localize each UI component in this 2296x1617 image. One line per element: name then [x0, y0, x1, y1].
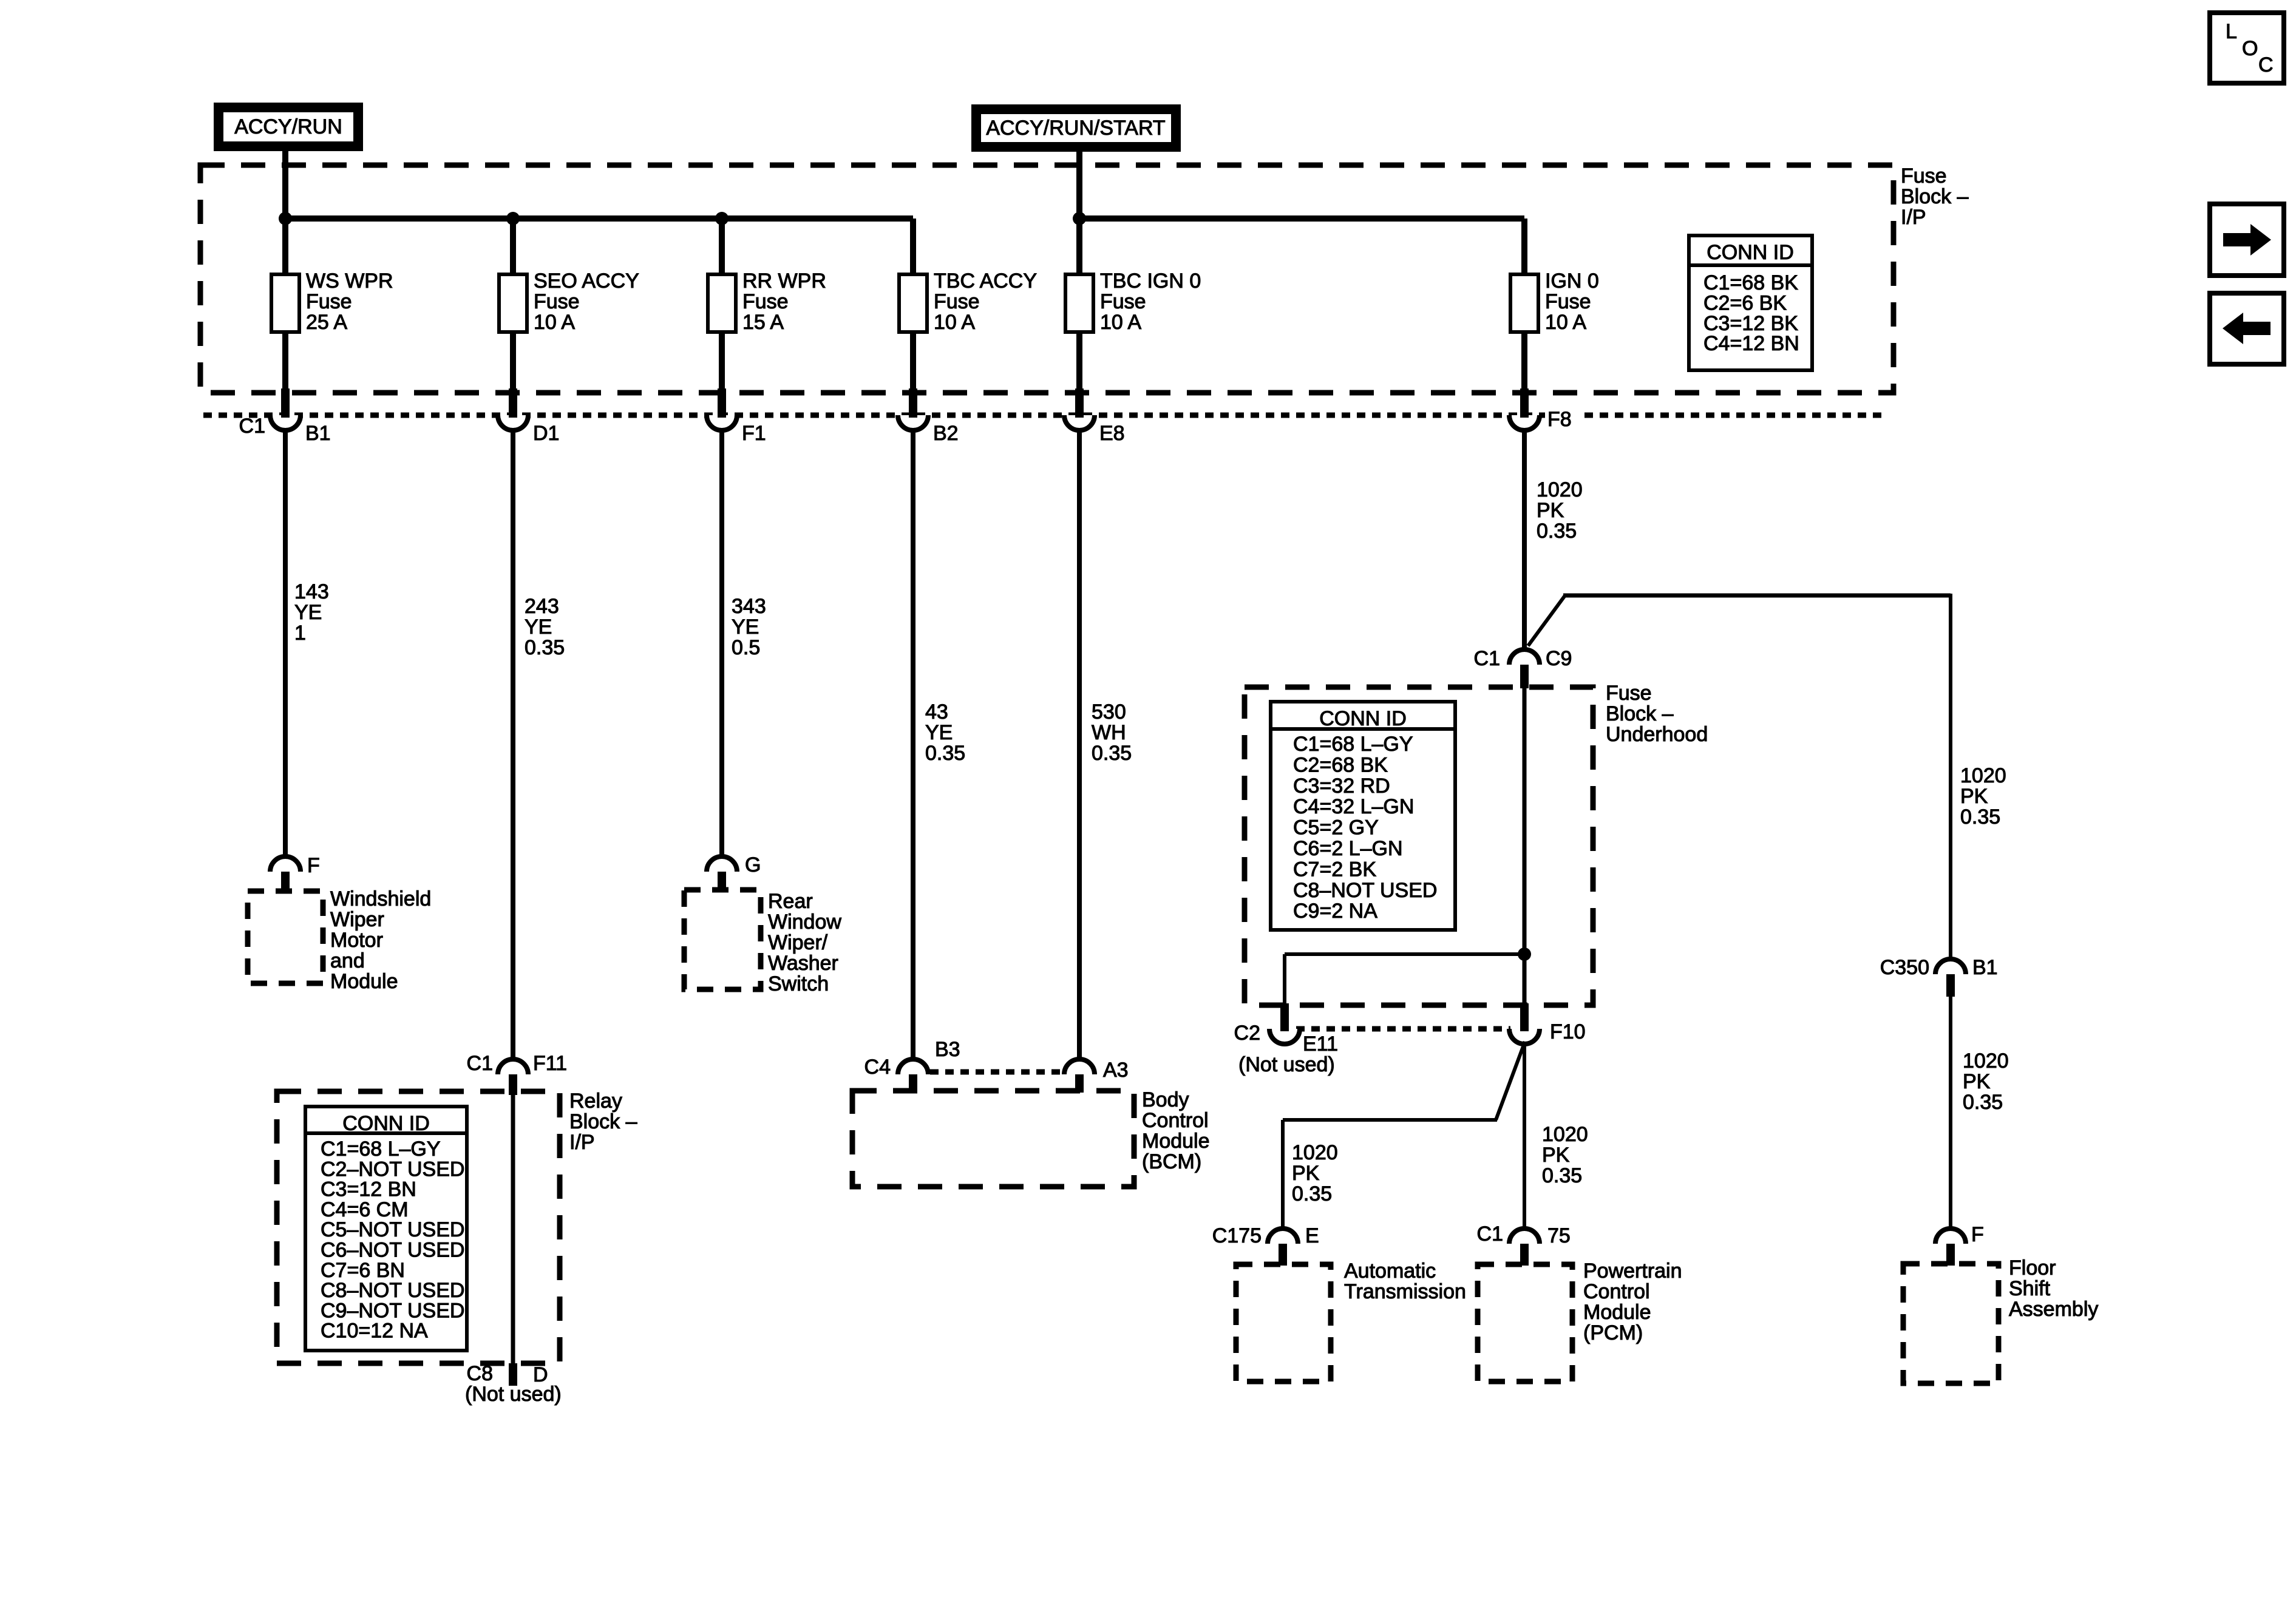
- fuse SEO ACCY 10 A: [499, 269, 639, 334]
- label 1020 PK 0.35 branch lower: [1963, 1049, 2009, 1114]
- wire fuse to connector x=2511: [1521, 332, 1527, 392]
- svg-text:Module: Module: [1583, 1301, 1651, 1324]
- wire ACCY/RUN feed: [282, 151, 288, 219]
- automatic transmission dashed outline: [1236, 1264, 1331, 1381]
- CONN ID table fuse block I/P: [1689, 236, 1812, 370]
- connector pin F1 fuse block I/P: [707, 388, 766, 445]
- svg-text:0.35: 0.35: [1292, 1182, 1332, 1205]
- wire F10 to PCM: [1523, 1043, 1526, 1230]
- connector C350 B1: [1880, 956, 1998, 997]
- label Fuse Block - I/P: [1901, 164, 1969, 229]
- wire bus to fuse x=470: [282, 219, 288, 274]
- svg-text:1020: 1020: [1292, 1141, 1338, 1164]
- svg-text:YE: YE: [732, 615, 759, 639]
- svg-text:WH: WH: [1092, 721, 1126, 744]
- svg-text:C5–NOT USED: C5–NOT USED: [321, 1218, 464, 1241]
- svg-text:Fuse: Fuse: [1606, 682, 1652, 705]
- svg-text:YE: YE: [525, 615, 552, 639]
- svg-text:C1: C1: [467, 1052, 493, 1075]
- connector C1 C9 underhood: [1474, 647, 1572, 688]
- svg-text:C8–NOT USED: C8–NOT USED: [321, 1279, 464, 1302]
- svg-text:Body: Body: [1142, 1088, 1189, 1111]
- fuse TBC ACCY 10 A: [899, 269, 1037, 334]
- svg-text:Fuse: Fuse: [742, 290, 789, 313]
- CONN ID table underhood: [1271, 702, 1455, 930]
- svg-text:Module: Module: [330, 970, 398, 993]
- node ACCY/RUN/START: [972, 105, 1180, 151]
- svg-text:143: 143: [294, 580, 329, 603]
- svg-text:Transmission: Transmission: [1344, 1280, 1466, 1303]
- node ACCY/RUN: [214, 103, 362, 151]
- svg-text:B3: B3: [935, 1038, 960, 1061]
- connector pin D1 fuse block I/P: [498, 388, 559, 445]
- svg-text:F: F: [1971, 1223, 1984, 1246]
- svg-text:(Not used): (Not used): [1238, 1053, 1335, 1076]
- svg-text:F: F: [307, 854, 320, 877]
- svg-text:1020: 1020: [1963, 1049, 2009, 1073]
- svg-text:0.35: 0.35: [1960, 805, 2000, 829]
- svg-text:C4=12 BN: C4=12 BN: [1703, 332, 1799, 355]
- svg-text:G: G: [745, 853, 761, 876]
- BCM connector dotted line: [930, 1070, 1063, 1075]
- svg-text:C1=68 L–GY: C1=68 L–GY: [321, 1137, 441, 1161]
- svg-text:C9=2 NA: C9=2 NA: [1293, 900, 1377, 923]
- svg-text:Shift: Shift: [2009, 1277, 2051, 1300]
- connector pin B2 fuse block I/P: [898, 388, 959, 445]
- svg-text:Block –: Block –: [1901, 185, 1969, 208]
- wire 530 WH circuit: [1079, 429, 1132, 1061]
- svg-text:ACCY/RUN/START: ACCY/RUN/START: [986, 117, 1165, 140]
- svg-text:YE: YE: [925, 721, 953, 744]
- svg-text:PK: PK: [1963, 1070, 1991, 1093]
- svg-text:Automatic: Automatic: [1344, 1259, 1436, 1283]
- connector C8 D not used: [465, 1362, 562, 1406]
- wire 243 YE circuit: [513, 429, 565, 1061]
- svg-text:1020: 1020: [1537, 478, 1583, 501]
- svg-text:Wiper: Wiper: [330, 908, 384, 931]
- wire ACCY/RUN/START feed: [1076, 151, 1082, 219]
- label Windshield Wiper Motor and Module: [330, 887, 431, 993]
- svg-text:C3=12 BN: C3=12 BN: [321, 1178, 416, 1201]
- svg-text:15 A: 15 A: [742, 311, 784, 334]
- svg-text:0.35: 0.35: [525, 636, 565, 659]
- svg-text:I/P: I/P: [1901, 206, 1926, 229]
- svg-text:RR WPR: RR WPR: [742, 269, 826, 293]
- svg-text:10 A: 10 A: [534, 311, 575, 334]
- svg-text:243: 243: [525, 595, 559, 618]
- wire fuse to connector x=470: [282, 332, 288, 392]
- svg-text:10 A: 10 A: [1545, 311, 1586, 334]
- svg-text:Block –: Block –: [1606, 702, 1674, 725]
- wire 1020 PK to floor shift: [1949, 997, 1952, 1230]
- wire bus ACCY/RUN/START: [1079, 215, 1524, 222]
- wire 143 YE circuit: [285, 429, 329, 858]
- wire bus to fuse x=1189: [719, 219, 725, 274]
- svg-text:C3=32 RD: C3=32 RD: [1293, 775, 1390, 798]
- wire 1020 PK circuit from F8: [1524, 429, 1583, 651]
- label Fuse Block - Underhood: [1606, 682, 1708, 746]
- svg-text:Module: Module: [1142, 1130, 1210, 1153]
- svg-text:A3: A3: [1103, 1059, 1129, 1082]
- svg-text:ACCY/RUN: ACCY/RUN: [234, 115, 342, 138]
- svg-text:CONN ID: CONN ID: [1707, 241, 1794, 264]
- svg-text:D1: D1: [533, 422, 559, 445]
- svg-text:E: E: [1305, 1224, 1319, 1247]
- svg-text:Relay: Relay: [569, 1090, 622, 1113]
- fuse IGN 0 10 A: [1510, 269, 1599, 334]
- svg-text:25 A: 25 A: [306, 311, 347, 334]
- floor shift assembly dashed outline: [1903, 1264, 1999, 1383]
- svg-text:TBC ACCY: TBC ACCY: [934, 269, 1037, 293]
- svg-text:E8: E8: [1099, 422, 1125, 445]
- svg-text:Underhood: Underhood: [1606, 723, 1708, 746]
- junction dot bus 1 at WS WPR: [279, 212, 292, 225]
- wire bus to fuse x=2511: [1521, 219, 1527, 274]
- svg-text:C7=2 BK: C7=2 BK: [1293, 858, 1376, 881]
- svg-text:C: C: [2258, 53, 2274, 76]
- svg-text:Control: Control: [1142, 1109, 1209, 1132]
- svg-text:1: 1: [294, 622, 306, 645]
- forward arrow box: [2210, 204, 2284, 276]
- svg-text:PK: PK: [1292, 1162, 1320, 1185]
- wire bus ACCY/RUN: [285, 215, 913, 222]
- wire fuse to connector x=845: [510, 332, 516, 392]
- fuse block underhood dashed outline: [1245, 687, 1593, 1005]
- svg-text:C8–NOT USED: C8–NOT USED: [1293, 879, 1437, 902]
- svg-text:(BCM): (BCM): [1142, 1150, 1201, 1173]
- windshield wiper motor dashed outline: [248, 891, 323, 983]
- svg-text:WS WPR: WS WPR: [306, 269, 393, 293]
- svg-text:CONN ID: CONN ID: [1319, 707, 1407, 730]
- svg-text:F10: F10: [1550, 1020, 1586, 1043]
- wire branch to C350: [1528, 594, 1951, 961]
- wire 43 YE circuit: [913, 429, 965, 1061]
- svg-text:Windshield: Windshield: [330, 887, 431, 910]
- junction dot bus 2 at TBC IGN 0: [1073, 212, 1086, 225]
- svg-text:Fuse: Fuse: [1901, 164, 1947, 188]
- svg-text:C2=6 BK: C2=6 BK: [1703, 291, 1787, 314]
- svg-text:C1: C1: [1474, 647, 1500, 670]
- svg-text:Fuse: Fuse: [934, 290, 980, 313]
- svg-text:0.35: 0.35: [1542, 1164, 1582, 1187]
- fuse RR WPR 15 A: [708, 269, 826, 334]
- svg-text:TBC IGN 0: TBC IGN 0: [1100, 269, 1201, 293]
- wire bus to fuse x=1778: [1076, 219, 1082, 274]
- svg-text:B1: B1: [1972, 956, 1998, 979]
- body control module dashed outline: [852, 1091, 1134, 1187]
- svg-text:C4: C4: [864, 1056, 891, 1079]
- svg-text:C175: C175: [1212, 1224, 1262, 1247]
- svg-text:C1: C1: [1477, 1222, 1503, 1246]
- svg-text:PK: PK: [1537, 499, 1564, 522]
- wire 343 YE circuit: [722, 429, 766, 858]
- connector A3 BCM: [1064, 1059, 1129, 1093]
- svg-text:C7=6 BN: C7=6 BN: [321, 1259, 405, 1282]
- svg-text:75: 75: [1547, 1224, 1571, 1247]
- wire relay block interior: [511, 1095, 515, 1363]
- svg-text:0.35: 0.35: [1092, 742, 1132, 765]
- svg-text:IGN 0: IGN 0: [1545, 269, 1599, 293]
- label 1020 PK 0.35 transmission: [1292, 1141, 1338, 1205]
- junction dot bus 1 at RR WPR: [715, 212, 729, 225]
- svg-text:343: 343: [732, 595, 766, 618]
- junction dot bus 1 at SEO ACCY: [506, 212, 520, 225]
- junction dot underhood: [1518, 947, 1531, 961]
- connector C2 E11 not used: [1234, 1003, 1338, 1076]
- svg-text:C6–NOT USED: C6–NOT USED: [321, 1239, 464, 1262]
- svg-text:Fuse: Fuse: [1545, 290, 1591, 313]
- svg-text:Control: Control: [1583, 1280, 1650, 1303]
- label Body Control Module (BCM): [1142, 1088, 1210, 1173]
- svg-text:0.35: 0.35: [925, 742, 965, 765]
- connector C4 B3 BCM: [864, 1038, 960, 1093]
- svg-text:C4=6 CM: C4=6 CM: [321, 1198, 409, 1221]
- wire F10 branch to C175: [1283, 1042, 1525, 1230]
- svg-text:C1=68 BK: C1=68 BK: [1703, 271, 1798, 294]
- svg-text:Assembly: Assembly: [2009, 1298, 2098, 1321]
- fuse WS WPR 25 A: [271, 269, 393, 334]
- svg-text:Wiper/: Wiper/: [768, 931, 828, 954]
- connector row dotted line C1 fuse block I/P: [203, 413, 1888, 418]
- relay block I/P dashed outline: [277, 1091, 560, 1363]
- label Automatic Transmission: [1344, 1259, 1466, 1303]
- svg-text:1020: 1020: [1960, 764, 2006, 787]
- svg-text:Fuse: Fuse: [306, 290, 352, 313]
- powertrain control module dashed outline: [1478, 1264, 1572, 1381]
- svg-text:Floor: Floor: [2009, 1256, 2056, 1280]
- label Floor Shift Assembly: [2009, 1256, 2098, 1321]
- svg-text:C2=68 BK: C2=68 BK: [1293, 753, 1388, 776]
- svg-text:C350: C350: [1880, 956, 1929, 979]
- svg-text:Washer: Washer: [768, 952, 838, 975]
- svg-text:(Not used): (Not used): [465, 1383, 562, 1406]
- svg-text:Rear: Rear: [768, 890, 813, 913]
- svg-text:and: and: [330, 949, 365, 972]
- svg-text:C10=12 NA: C10=12 NA: [321, 1320, 428, 1343]
- svg-text:YE: YE: [294, 601, 322, 624]
- svg-text:B2: B2: [933, 422, 959, 445]
- svg-text:F11: F11: [533, 1052, 567, 1075]
- CONN ID table relay block: [305, 1107, 467, 1351]
- svg-text:C2: C2: [1234, 1022, 1260, 1045]
- svg-text:C1=68 L–GY: C1=68 L–GY: [1293, 733, 1413, 756]
- svg-text:C3=12 BK: C3=12 BK: [1703, 312, 1798, 335]
- connector C175 E transmission: [1212, 1224, 1319, 1266]
- label Rear Window Wiper/Washer Switch: [768, 890, 841, 995]
- svg-text:0.35: 0.35: [1537, 520, 1577, 543]
- svg-text:Switch: Switch: [768, 972, 829, 995]
- svg-text:E11: E11: [1303, 1032, 1338, 1056]
- svg-text:10 A: 10 A: [1100, 311, 1141, 334]
- connector pin F8 fuse block I/P: [1509, 388, 1583, 431]
- label 1020 PK 0.35 PCM: [1542, 1123, 1588, 1187]
- rear window wiper switch dashed outline: [684, 890, 761, 989]
- svg-text:C8: C8: [467, 1362, 493, 1385]
- connector F windshield wiper motor: [270, 854, 320, 892]
- svg-text:Motor: Motor: [330, 929, 383, 952]
- svg-text:SEO ACCY: SEO ACCY: [534, 269, 639, 293]
- svg-text:F1: F1: [742, 422, 766, 445]
- wire bus to fuse x=845: [510, 219, 516, 274]
- svg-text:10 A: 10 A: [934, 311, 975, 334]
- connector pin B1 fuse block I/P: [239, 388, 331, 445]
- svg-text:Fuse: Fuse: [1100, 290, 1146, 313]
- svg-text:PK: PK: [1960, 785, 1988, 808]
- connector F10 underhood: [1509, 1003, 1586, 1044]
- connector G rear window switch: [707, 853, 761, 891]
- svg-text:O: O: [2242, 37, 2258, 60]
- label Powertrain Control Module (PCM): [1583, 1259, 1682, 1344]
- connector C1 F11 relay block: [467, 1052, 568, 1095]
- svg-text:0.5: 0.5: [732, 636, 760, 659]
- svg-text:C6=2 L–GN: C6=2 L–GN: [1293, 837, 1403, 860]
- underhood connector dotted line: [1296, 1026, 1510, 1032]
- svg-text:B1: B1: [305, 422, 331, 445]
- svg-text:Powertrain: Powertrain: [1583, 1259, 1682, 1283]
- svg-text:C5=2 GY: C5=2 GY: [1293, 816, 1379, 839]
- connector C1 75 PCM: [1477, 1222, 1571, 1266]
- svg-text:PK: PK: [1542, 1144, 1570, 1167]
- fuse TBC IGN 0 10 A: [1065, 269, 1201, 334]
- connector pin E8 fuse block I/P: [1064, 388, 1125, 445]
- svg-text:530: 530: [1092, 700, 1126, 724]
- svg-text:43: 43: [925, 700, 948, 724]
- label 1020 PK 0.35 branch upper: [1960, 764, 2006, 829]
- svg-text:C9–NOT USED: C9–NOT USED: [321, 1299, 464, 1322]
- svg-text:C2–NOT USED: C2–NOT USED: [321, 1158, 464, 1181]
- wire fuse to connector x=1189: [719, 332, 725, 392]
- LOC reference box: [2210, 13, 2284, 83]
- svg-text:I/P: I/P: [569, 1131, 595, 1154]
- wire fuse to connector x=1504: [910, 332, 916, 392]
- svg-text:Fuse: Fuse: [534, 290, 580, 313]
- svg-text:C9: C9: [1546, 647, 1572, 670]
- svg-text:F8: F8: [1547, 408, 1572, 431]
- svg-text:Block –: Block –: [569, 1110, 637, 1133]
- wire underhood branch to C2: [1285, 954, 1524, 1005]
- svg-text:0.35: 0.35: [1963, 1091, 2003, 1114]
- fuse block I/P dashed outline: [200, 165, 1894, 393]
- label Relay Block - I/P: [569, 1090, 637, 1154]
- wire underhood interior: [1523, 688, 1527, 1005]
- svg-text:C4=32 L–GN: C4=32 L–GN: [1293, 795, 1414, 818]
- svg-text:(PCM): (PCM): [1583, 1321, 1643, 1344]
- wire bus to fuse x=1504: [910, 219, 916, 274]
- svg-text:L: L: [2226, 20, 2237, 43]
- svg-text:1020: 1020: [1542, 1123, 1588, 1146]
- wire fuse to connector x=1778: [1076, 332, 1082, 392]
- svg-text:C1: C1: [239, 415, 265, 438]
- connector F floor shift: [1935, 1223, 1984, 1266]
- backward arrow box: [2210, 293, 2284, 364]
- svg-text:Window: Window: [768, 910, 841, 934]
